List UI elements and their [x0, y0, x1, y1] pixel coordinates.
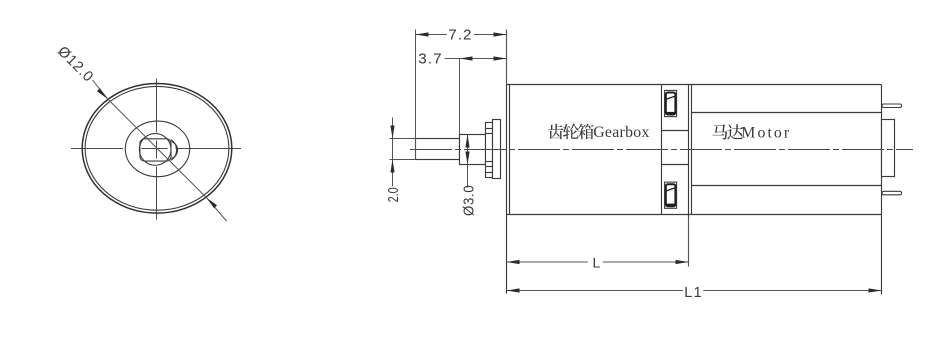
svg-text:3.7: 3.7 — [418, 50, 442, 67]
svg-text:2.0: 2.0 — [384, 187, 401, 202]
svg-text:Motor: Motor — [741, 124, 791, 141]
svg-text:Ø3.0: Ø3.0 — [460, 185, 477, 216]
svg-text:Gearbox: Gearbox — [593, 124, 650, 141]
svg-text:L: L — [593, 256, 601, 272]
svg-text:7.2: 7.2 — [448, 27, 472, 44]
svg-text:L1: L1 — [684, 285, 702, 301]
